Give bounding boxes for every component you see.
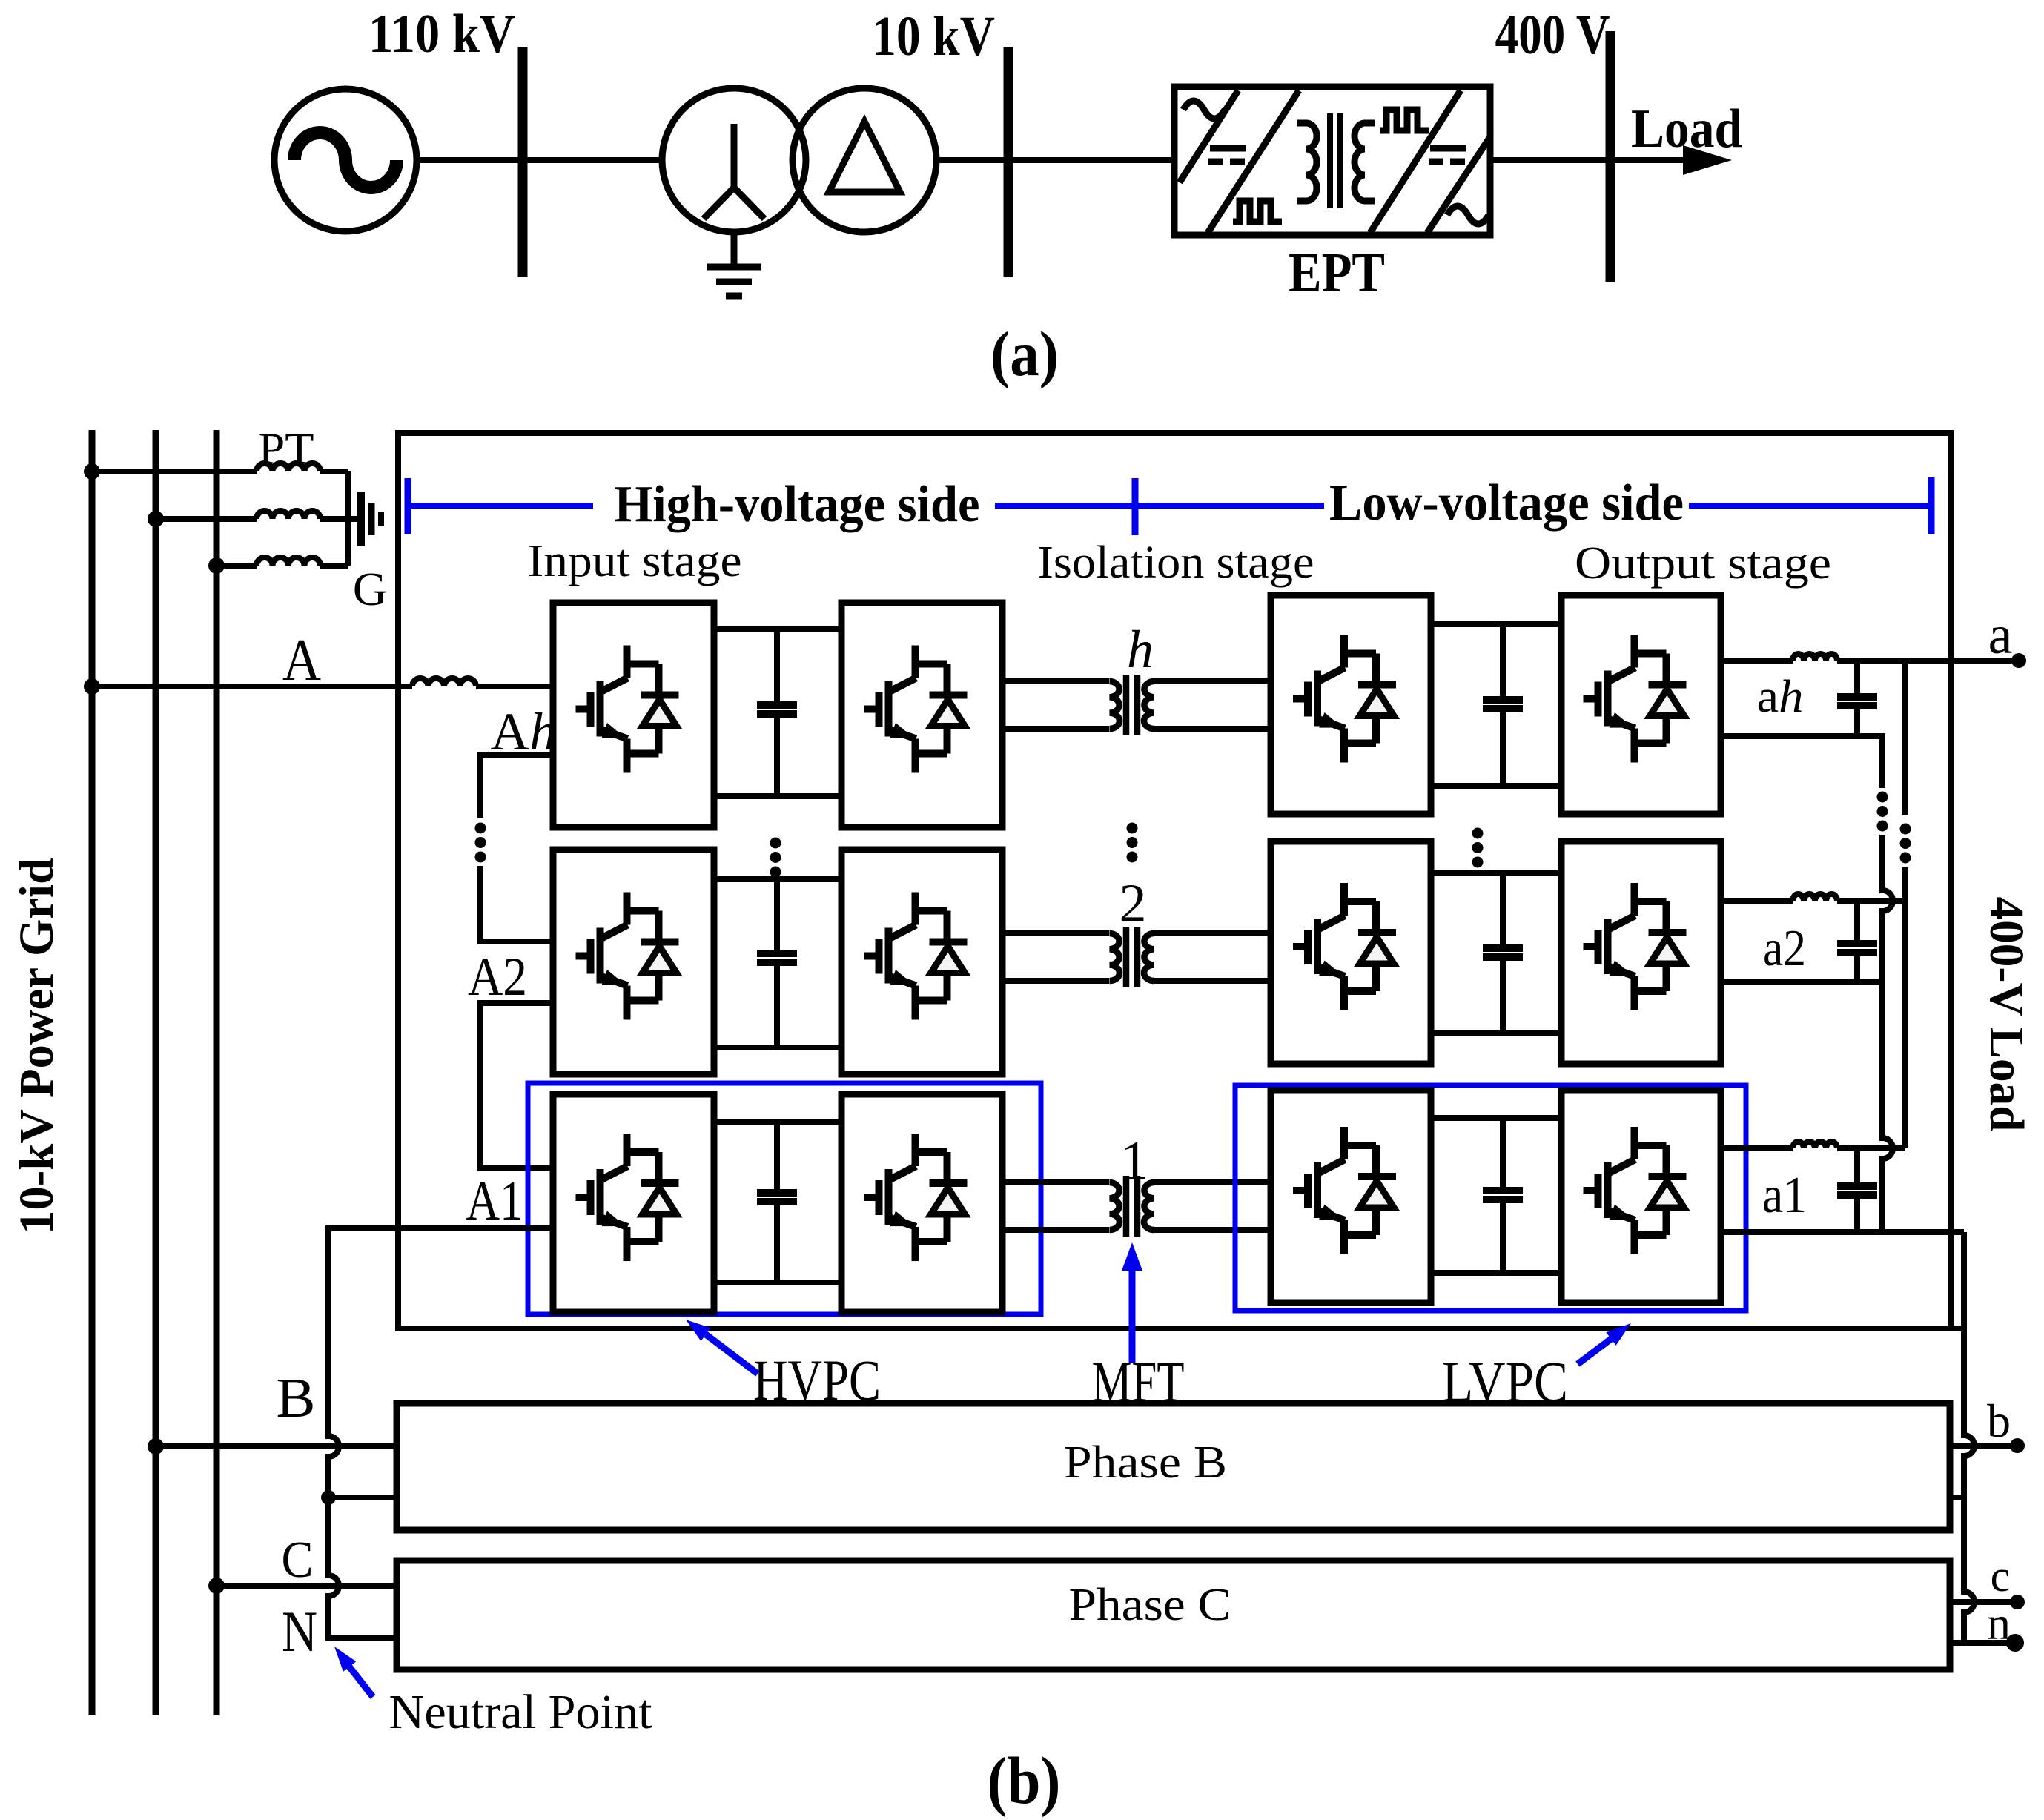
blue arrow Neutral Point bbox=[334, 1647, 373, 1697]
ground of T1 neutral bbox=[707, 232, 761, 296]
wire EPT frame extension to load neutral rail bbox=[1951, 1326, 1964, 1331]
transformer MFT 1 bbox=[1110, 1176, 1154, 1237]
wire phase B input bbox=[156, 1443, 397, 1449]
load arrow bbox=[1683, 145, 1732, 175]
wire cell A2 lower input bbox=[480, 1003, 553, 1168]
wire LV link to a2 row with crossover bbox=[1882, 835, 1893, 982]
svg-text:B: B bbox=[277, 1367, 316, 1429]
wire MFT h to LV cell bbox=[1154, 678, 1271, 684]
ellipsis HV chain bbox=[475, 823, 486, 863]
node A on bus bbox=[84, 678, 100, 695]
ellipsis isolation column bbox=[1127, 823, 1138, 863]
wire cell a1 output top bbox=[1721, 1145, 1793, 1151]
wire bus2 to EPT bbox=[1008, 157, 1174, 163]
IGBT of cell Ah rectifier bbox=[576, 646, 679, 773]
IGBT of cell a1 inverter bbox=[1584, 1127, 1687, 1254]
capacitor output filter a2 bbox=[1854, 901, 1860, 944]
converter cell ah inverter box bbox=[1561, 595, 1721, 814]
ellipsis LV DC column bbox=[1472, 828, 1484, 868]
capacitor DC-link row 1 HV bbox=[774, 1122, 780, 1193]
wire load neutral rail with crossovers over b and c bbox=[1964, 1232, 1974, 1643]
svg-text:400-V Load: 400-V Load bbox=[1979, 897, 2034, 1132]
wire cell A1 lower input to neutral bbox=[328, 1228, 553, 1638]
capacitor output filter a1 bbox=[1854, 1148, 1860, 1186]
node neutral to phase B bbox=[321, 1490, 336, 1505]
svg-text:2: 2 bbox=[1119, 873, 1147, 934]
wire LV parallel bus to lower rows bbox=[1902, 867, 1908, 1148]
svg-text:a2: a2 bbox=[1763, 920, 1806, 977]
converter cell a1 rectifier box bbox=[1271, 1091, 1431, 1303]
EPT block bbox=[1174, 87, 1490, 235]
bus bar 110kV bbox=[518, 47, 528, 277]
wire HV cell h to MFT h bbox=[1002, 678, 1109, 684]
converter cell A1 rectifier box bbox=[553, 1094, 714, 1312]
node C on bus bbox=[208, 1578, 225, 1594]
svg-text:Phase C: Phase C bbox=[1069, 1580, 1231, 1630]
svg-text:(b): (b) bbox=[988, 1744, 1061, 1818]
wire output b bbox=[1950, 1443, 2017, 1449]
blue divider: mid segment right bbox=[1135, 503, 1324, 509]
svg-text:EPT: EPT bbox=[1289, 242, 1385, 304]
capacitor DC-link row 2 HV bbox=[774, 879, 780, 953]
DC rail bottom LV row 1 bbox=[1431, 1270, 1561, 1276]
wire EPT to bus3 bbox=[1490, 157, 1683, 163]
DC-link rail top row 2 bbox=[714, 876, 841, 882]
DC-link rail top row 1 bbox=[714, 1119, 841, 1125]
node a bbox=[2011, 653, 2026, 668]
EPT outer enclosure bbox=[398, 433, 1951, 1328]
converter block Phase B bbox=[397, 1403, 1950, 1530]
node: PT tap on bus C bbox=[208, 557, 225, 574]
svg-text:b: b bbox=[1987, 1394, 2011, 1447]
wire output c bbox=[1950, 1599, 2017, 1605]
IGBT of cell ah rectifier bbox=[1293, 635, 1396, 763]
node: PT tap on bus A bbox=[84, 463, 100, 480]
wire cell ah output bottom bbox=[1721, 736, 1882, 788]
svg-text:Ah: Ah bbox=[491, 702, 557, 761]
svg-text:G: G bbox=[353, 563, 387, 615]
blue divider: LV segment bbox=[1689, 503, 1931, 509]
wire PT common bbox=[345, 471, 351, 566]
inductor output filter a1 bbox=[1793, 1142, 1837, 1148]
svg-text:High-voltage side: High-voltage side bbox=[615, 476, 980, 533]
converter cell A1 inverter box bbox=[841, 1094, 1002, 1312]
blue arrow HVPC bbox=[686, 1320, 758, 1374]
svg-text:ah: ah bbox=[1757, 672, 1804, 722]
IGBT of cell ah inverter bbox=[1584, 635, 1687, 763]
ellipsis LV series link bbox=[1877, 792, 1888, 832]
svg-text:n: n bbox=[1987, 1597, 2011, 1649]
node B on bus bbox=[148, 1438, 164, 1455]
IGBT of cell A2 inverter bbox=[864, 893, 968, 1020]
DC rail top LV row h bbox=[1431, 621, 1561, 627]
blue frame HVPC bbox=[528, 1083, 1041, 1314]
IGBT of cell a2 inverter bbox=[1584, 883, 1687, 1010]
wire T1 to bus2 bbox=[936, 157, 1008, 163]
IGBT of cell Ah inverter bbox=[864, 646, 968, 773]
wire LV link a2 to a1 with crossover bbox=[1882, 982, 1893, 1232]
blue divider: HV segment bbox=[408, 503, 593, 509]
wire HV cell 2 to MFT 2 bbox=[1002, 930, 1109, 936]
wire LV parallel bus from node a bbox=[1902, 661, 1908, 815]
converter block Phase C bbox=[397, 1561, 1950, 1670]
capacitor DC-link row 1 LV bbox=[1500, 1118, 1506, 1191]
svg-text:Load: Load bbox=[1631, 99, 1742, 159]
converter cell a1 inverter box bbox=[1561, 1091, 1721, 1303]
wire phase A input bbox=[92, 684, 412, 689]
svg-text:A: A bbox=[282, 628, 321, 693]
grid bus phase A bbox=[89, 430, 96, 1715]
wire MFT 2 to LV cell bbox=[1154, 930, 1271, 936]
ellipsis HV DC column bbox=[770, 838, 781, 878]
DC-link rail bottom row 1 bbox=[714, 1280, 841, 1285]
blue divider: left terminator bbox=[405, 478, 411, 534]
svg-text:h: h bbox=[1127, 620, 1154, 679]
wire cell a2 output top bbox=[1721, 898, 1793, 904]
wire a2 to parallel bus bbox=[1837, 898, 1905, 904]
transformer MFT 2 bbox=[1110, 927, 1154, 987]
grid bus phase B bbox=[153, 430, 159, 1715]
wire inductor to cell Ah bbox=[476, 684, 553, 689]
blue divider: middle terminator bbox=[1132, 478, 1139, 535]
blue divider: mid segment left bbox=[995, 503, 1135, 509]
node b bbox=[2010, 1438, 2025, 1453]
blue arrow LVPC bbox=[1578, 1323, 1631, 1364]
wire phase C input bbox=[216, 1583, 397, 1589]
DC-link rail bottom row 2 bbox=[714, 1045, 841, 1050]
DC rail bottom LV row h bbox=[1431, 783, 1561, 789]
capacitor output filter ah bbox=[1854, 661, 1860, 697]
wire MFT 1 to LV cell bbox=[1154, 1179, 1271, 1185]
svg-text:Isolation stage: Isolation stage bbox=[1038, 537, 1314, 588]
AC source G1 bbox=[274, 89, 417, 231]
wire output n bbox=[1950, 1640, 2015, 1646]
DC-link rail top row h bbox=[714, 626, 841, 632]
svg-text:Neutral Point: Neutral Point bbox=[389, 1685, 652, 1739]
bus bar 10kV bbox=[1004, 47, 1013, 277]
svg-text:A1: A1 bbox=[466, 1170, 523, 1232]
wire cell ah output top bbox=[1721, 658, 1793, 664]
capacitor DC-link row h LV bbox=[1500, 624, 1506, 700]
inductor phase A input filter bbox=[412, 678, 476, 686]
svg-text:a: a bbox=[1988, 605, 2013, 666]
wire phase B neutral input bbox=[328, 1495, 398, 1500]
ellipsis LV parallel bus bbox=[1900, 824, 1911, 864]
PT winding 3 bbox=[216, 563, 257, 569]
transformer T1 (wye-delta) bbox=[662, 88, 936, 232]
PT winding 2 bbox=[156, 516, 257, 522]
converter cell A2 inverter box bbox=[841, 850, 1002, 1074]
wire phase B to neutral rail bbox=[1950, 1495, 1964, 1500]
transformer MFT h bbox=[1110, 675, 1154, 735]
DC-link rail bottom row h bbox=[714, 793, 841, 799]
svg-text:Low-voltage side: Low-voltage side bbox=[1329, 474, 1684, 532]
capacitor DC-link row h HV bbox=[774, 629, 780, 705]
svg-text:a1: a1 bbox=[1762, 1167, 1807, 1224]
converter cell A2 rectifier box bbox=[553, 850, 714, 1074]
wire HV chain to cell A2 bbox=[480, 866, 553, 942]
node: PT tap on bus B bbox=[148, 511, 164, 527]
wire HV cell 1 to MFT 1 bbox=[1002, 1179, 1109, 1185]
svg-text:Phase B: Phase B bbox=[1064, 1437, 1227, 1488]
converter cell a2 inverter box bbox=[1561, 841, 1721, 1064]
IGBT of cell A1 rectifier bbox=[576, 1134, 679, 1261]
IGBT of cell A1 inverter bbox=[864, 1134, 968, 1261]
DC rail top LV row 2 bbox=[1431, 870, 1561, 876]
svg-text:110 kV: 110 kV bbox=[368, 4, 515, 64]
inductor output filter a2 bbox=[1793, 894, 1837, 901]
svg-text:Input stage: Input stage bbox=[528, 536, 742, 586]
svg-text:10-kV Power Grid: 10-kV Power Grid bbox=[10, 858, 64, 1234]
converter cell Ah inverter box bbox=[841, 603, 1002, 827]
wire bus1 to transformer T1 bbox=[523, 157, 663, 163]
IGBT of cell a1 rectifier bbox=[1293, 1127, 1396, 1254]
converter cell ah rectifier box bbox=[1271, 595, 1431, 814]
svg-text:C: C bbox=[282, 1532, 314, 1589]
svg-text:Output stage: Output stage bbox=[1575, 538, 1831, 589]
IGBT of cell a2 rectifier bbox=[1293, 883, 1396, 1010]
bus bar 400V bbox=[1606, 31, 1615, 282]
svg-text:(a): (a) bbox=[990, 318, 1059, 389]
capacitor DC-link row 2 LV bbox=[1500, 873, 1506, 948]
svg-text:N: N bbox=[282, 1599, 317, 1664]
node n bbox=[2006, 1634, 2024, 1652]
blue frame LVPC bbox=[1235, 1085, 1746, 1311]
DC rail top LV row 1 bbox=[1431, 1115, 1561, 1121]
PT winding 1 bbox=[92, 469, 257, 474]
svg-text:400 V: 400 V bbox=[1495, 4, 1610, 66]
svg-text:A2: A2 bbox=[468, 947, 527, 1007]
IGBT of cell A2 rectifier bbox=[576, 893, 679, 1020]
svg-text:c: c bbox=[1991, 1552, 2011, 1601]
converter cell Ah rectifier box bbox=[553, 603, 714, 827]
blue arrow MFT bbox=[1122, 1242, 1142, 1363]
ground G of PT bbox=[348, 492, 381, 546]
grid bus phase C bbox=[214, 430, 220, 1715]
wire a1 to parallel bus bbox=[1837, 1145, 1905, 1151]
svg-text:10 kV: 10 kV bbox=[872, 5, 995, 67]
wire cell Ah lower input bbox=[480, 755, 553, 818]
converter cell a2 rectifier box bbox=[1271, 841, 1431, 1064]
DC rail bottom LV row 2 bbox=[1431, 1030, 1561, 1036]
node c bbox=[2010, 1595, 2025, 1609]
wire source to bus1 bbox=[417, 157, 523, 163]
wire cell a2 output bottom bbox=[1721, 979, 1882, 985]
blue divider: right terminator bbox=[1928, 477, 1935, 534]
wire ah to node a bbox=[1837, 658, 2019, 664]
inductor output filter ah bbox=[1793, 654, 1837, 661]
wire cell a1 output bottom to neutral rail bbox=[1721, 1229, 1964, 1235]
